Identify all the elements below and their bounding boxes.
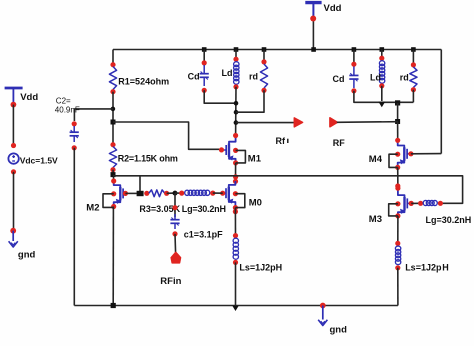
resistor R3 [144, 190, 169, 197]
wire M2 bulk-source loop [103, 194, 114, 208]
svg-text:Cd: Cd [333, 74, 345, 84]
capacitor Cd2 [349, 62, 358, 94]
wire M3 gate to Lg2 [411, 202, 421, 204]
junction gate-feed [111, 120, 116, 125]
svg-text:Ls=1J2pH: Ls=1J2pH [239, 263, 282, 273]
transistor M0 [220, 181, 238, 210]
svg-text:Vdd: Vdd [324, 3, 342, 14]
wire Vdd top bus [113, 49, 441, 51]
svg-text:RFin: RFin [160, 276, 181, 287]
label R3=3.05K [139, 204, 180, 214]
label c1=3.1pF [184, 229, 223, 239]
svg-text:Lg=30.2nH: Lg=30.2nH [426, 215, 472, 225]
label rd (left) [249, 72, 258, 82]
inductor Ld1 [233, 57, 239, 90]
wire stage1 output tap [236, 122, 294, 124]
svg-text:Lg=30.2nH: Lg=30.2nH [182, 204, 226, 214]
wire M4 bulk-source loop [389, 154, 398, 167]
resistor rd2 [410, 62, 417, 92]
inductor Ls1 [233, 233, 239, 265]
wire M1 source to M0 drain [235, 163, 237, 181]
resistor R2 [109, 142, 116, 172]
label Vdc=1.5V [20, 156, 58, 166]
svg-text:M4: M4 [369, 154, 383, 165]
power Vdd supply symbol (left) [5, 88, 23, 108]
label R2=1.15K ohm [118, 153, 178, 163]
label M0 [249, 198, 262, 209]
label M1 [248, 153, 262, 164]
svg-text:gnd: gnd [330, 325, 348, 336]
wire C2 to ground rail [73, 148, 75, 306]
wire Ls1 to rail [235, 262, 237, 305]
svg-text:c1=3.1pF: c1=3.1pF [184, 229, 223, 239]
wire C2 horizontal [74, 109, 113, 121]
label Lg=30.2nH (right) [426, 215, 472, 225]
wire Ls2 to rail [397, 268, 399, 306]
capacitor Cd1 [200, 60, 209, 93]
arrow RF input [330, 118, 337, 127]
wire gate feed to M1 [113, 122, 219, 149]
label 40.9nF [55, 105, 80, 114]
wire Cd2 bottom [354, 91, 414, 103]
wire M0 source to Ls1 [233, 208, 238, 236]
junction Ls1-rail arrow [232, 306, 238, 311]
label RFin [160, 276, 181, 287]
label RF [333, 138, 345, 148]
wire Lg1 to M0 gate [213, 192, 223, 194]
inductor Ls2 [395, 241, 401, 271]
wire M2 source to rail [112, 207, 114, 306]
svg-text:Ls=1J2p H: Ls=1J2p H [405, 262, 449, 272]
wire bus to Ld2 [381, 50, 383, 61]
label Vdd (top) [324, 3, 342, 14]
wire Vdd to Vdc source [12, 105, 14, 144]
label M4 [369, 154, 383, 165]
junction Vdd-bus [311, 47, 316, 52]
svg-text:R2=1.15K ohm: R2=1.15K ohm [118, 153, 178, 163]
svg-text:M0: M0 [249, 198, 262, 209]
svg-text:RF: RF [333, 138, 345, 148]
wire C1 to port [174, 234, 177, 253]
label Rf1 [276, 136, 288, 146]
svg-text:Rf: Rf [276, 136, 286, 146]
ground gnd (bottom) [318, 303, 327, 326]
svg-text:M1: M1 [248, 153, 262, 164]
wire Vdc to gnd [13, 172, 15, 231]
junction drain node b [234, 110, 239, 115]
wire RF node to M4 drain [397, 122, 399, 141]
wire Ld2 bottom arrow [378, 86, 385, 108]
wire C1 top [174, 193, 176, 217]
junction bias node [111, 172, 116, 177]
node C1 junction [173, 191, 178, 196]
wire drop to RF node [397, 103, 399, 122]
junction bus-rd1 [262, 47, 267, 52]
wire M2 gate to blob [125, 192, 137, 194]
svg-text:gnd: gnd [18, 250, 36, 261]
svg-text:M3: M3 [369, 214, 382, 225]
voltage source Vdc [8, 143, 18, 175]
resistor rd1 [260, 59, 267, 93]
capacitor C1 [170, 205, 179, 236]
junction bus-Ld2 [380, 47, 385, 52]
wire M0 bulk-source loop [235, 194, 244, 208]
wire RF arrow to M4 drain node [337, 121, 398, 124]
junction M2-rail [111, 303, 116, 308]
node R3 blob junction [137, 191, 144, 196]
ground gnd (left) [9, 228, 18, 247]
wire bus to R1 [112, 50, 114, 67]
label Ls=1J2p H (right) [405, 262, 449, 272]
junction bus-Cd2 [352, 47, 357, 52]
junction drain node c [234, 120, 239, 125]
arrow Rf1 output [294, 118, 302, 127]
wire M1 bulk-source loop [236, 150, 246, 163]
svg-text:Vdc=1.5V: Vdc=1.5V [20, 156, 58, 166]
junction bus-rd2 [411, 47, 416, 52]
wire bias stub to R3 node [139, 176, 141, 192]
inductor Lg1 [179, 190, 215, 196]
transistor M4 [395, 138, 413, 170]
wire ground rail [74, 305, 398, 307]
wire bus to Cd1 [203, 50, 205, 63]
wire bus to rd2 [412, 50, 414, 67]
node C2 tap junction [111, 107, 116, 112]
junction bus-Ld1 [234, 47, 239, 52]
label C2= [56, 97, 71, 106]
svg-text:Vdd: Vdd [20, 92, 38, 103]
label gnd (bottom) [330, 325, 348, 336]
junction stage2 drain node [395, 100, 400, 105]
svg-text:Ld: Ld [370, 73, 381, 83]
wire R2 to M2 drain [112, 170, 115, 181]
label M2 [86, 203, 99, 214]
label Cd (left) [188, 72, 200, 82]
label R1=524ohm [118, 76, 169, 86]
port RFin [171, 252, 180, 262]
junction drain node a [234, 101, 239, 106]
transistor M3 [395, 186, 414, 219]
transistor M1 [219, 133, 238, 166]
wire R1 to bias junctions [112, 92, 114, 145]
label gnd (left) [18, 250, 36, 261]
wire R3 to C1 node [167, 192, 175, 194]
svg-text:C2=: C2= [56, 97, 71, 106]
capacitor C2 [70, 121, 79, 150]
svg-text:Ld: Ld [222, 68, 233, 78]
svg-text:M2: M2 [86, 203, 99, 214]
resistor R1 [109, 62, 116, 94]
node M3 drain dot [395, 183, 400, 188]
label Ld (left) [222, 68, 233, 78]
wire M3 source to Ls2 [397, 216, 399, 244]
label M3 [369, 214, 382, 225]
svg-text:rd: rd [400, 73, 409, 83]
svg-text:R1=524ohm: R1=524ohm [118, 76, 169, 86]
wire to Lg1 [175, 192, 183, 194]
transistor M2 [111, 178, 128, 209]
wire right edge from Vdd bus down to M4 gate [440, 50, 442, 154]
svg-text:rd: rd [249, 72, 258, 82]
wire bus to Ld1 [235, 50, 237, 61]
label Lg=30.2nH (left) [182, 204, 226, 214]
node cascode crossing dots [233, 174, 238, 184]
label rd (right) [400, 73, 409, 83]
label Ls=1J2pH (left) [239, 263, 282, 273]
wire M4 gate to right edge [411, 153, 441, 155]
wire M4 source to M3 drain [397, 167, 399, 188]
svg-text:40.9nF: 40.9nF [55, 105, 80, 114]
label Ld (right) [370, 73, 381, 83]
label Vdd (left) [20, 92, 38, 103]
wire rd2 bottom [412, 90, 414, 103]
power Vdd supply symbol (top) [305, 3, 321, 50]
inductor Ld2 [379, 56, 385, 89]
wire bias rail long [113, 176, 463, 204]
wire rd1 bottom [236, 90, 264, 112]
inductor Lg2 [418, 200, 443, 206]
junction RF node [395, 119, 400, 124]
wire Cd1 bottom [204, 90, 236, 103]
wire bus to Cd2 [353, 50, 355, 65]
svg-text:Cd: Cd [188, 72, 200, 82]
wire Ld1 to M1 drain [235, 87, 237, 136]
junction bus-Cd1 [202, 47, 207, 52]
wire bus to rd1 [263, 50, 265, 63]
label Cd (right) [333, 74, 345, 84]
wire M3 bulk-source loop [389, 204, 398, 216]
